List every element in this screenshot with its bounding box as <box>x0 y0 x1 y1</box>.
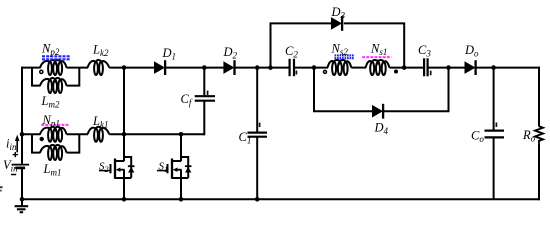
wire S2 source to bottom rail <box>123 170 125 200</box>
minus sign <box>11 174 16 176</box>
wire top row: Do to top-right corner <box>477 67 541 69</box>
svg-text:Ns2: Ns2 <box>331 41 349 57</box>
inductor Lk1 <box>88 127 110 142</box>
wire Lm2 block right side <box>67 68 80 86</box>
wire D4 branch left side down <box>314 68 373 112</box>
diode Do <box>465 60 476 75</box>
highlight dashes Np2 (blue double) <box>42 56 70 59</box>
wire D3 branch right side down <box>344 23 404 67</box>
svg-text:iin: iin <box>6 136 17 152</box>
ground <box>15 199 29 212</box>
svg-text:S2: S2 <box>99 161 109 174</box>
svg-text:Ns1: Ns1 <box>370 41 387 57</box>
svg-text:D4: D4 <box>374 120 389 136</box>
wire top row: D2 to C2 <box>235 67 289 69</box>
svg-text:Cf: Cf <box>181 92 193 108</box>
capacitor Co <box>485 131 505 138</box>
wire left vertical input column <box>21 67 23 164</box>
resistor Ro <box>535 126 543 143</box>
svg-text:C2: C2 <box>285 44 298 60</box>
svg-text:Do: Do <box>464 43 479 59</box>
wire bottom rail <box>22 198 539 200</box>
current arrow iin <box>15 135 20 153</box>
wire C1 branch lower <box>256 137 258 200</box>
svg-text:Np1: Np1 <box>42 113 60 129</box>
wire Cf branch upper <box>203 68 205 97</box>
highlight dashes Np1 (magenta) <box>41 124 69 126</box>
wire D3 branch left and top <box>271 23 332 67</box>
diode D4 <box>372 104 383 119</box>
node Ns1 polarity dot (filled) <box>394 70 398 74</box>
inductor Lm2 <box>40 78 67 93</box>
diode D3 <box>331 16 342 31</box>
highlight dashes Ns1 (magenta) <box>362 56 391 58</box>
wire Lm1 block right side <box>67 134 80 152</box>
wire top row: Lk2 to D1 <box>109 67 154 69</box>
wire S1 source to bottom rail <box>180 170 182 200</box>
wire Co branch lower <box>493 137 495 199</box>
capacitor tick mark Co <box>495 123 497 128</box>
svg-text:S1: S1 <box>159 161 169 174</box>
wire Lm2 block left vertical <box>32 68 41 86</box>
inductor Lm1 <box>40 145 67 160</box>
svg-text:D3: D3 <box>331 5 346 21</box>
wire top row: left vertical to Np2 <box>22 67 41 69</box>
winding Np2 <box>40 60 67 75</box>
node Ns2 polarity dot (open) <box>324 70 327 73</box>
node Np1 polarity dot (filled) <box>40 137 44 141</box>
svg-text:C3: C3 <box>418 43 431 59</box>
wire Cf branch lower <box>203 101 205 136</box>
wire top row: C3 to Do <box>429 67 466 69</box>
wire second row: Np1 to Lk1 <box>67 133 89 135</box>
wire top row: Ns2 to Ns1 <box>351 67 366 69</box>
svg-text:Lm2: Lm2 <box>41 94 60 110</box>
wire second row: Lk1 to Cf bottom corner <box>109 133 204 135</box>
svg-text:Lm1: Lm1 <box>43 162 62 178</box>
transistor S2 <box>99 156 135 179</box>
transistor S1 <box>157 156 192 179</box>
wire battery to bottom rail <box>21 168 23 199</box>
svg-text:Lk1: Lk1 <box>92 114 108 130</box>
svg-text:Ro: Ro <box>522 128 536 144</box>
capacitor C1 <box>248 133 268 137</box>
capacitor C2 <box>290 59 294 76</box>
capacitor C3 <box>424 58 428 76</box>
highlight dashes Ns2 (blue double) <box>335 55 355 58</box>
battery Vin top plate <box>12 164 30 166</box>
svg-text:Np2: Np2 <box>41 41 60 57</box>
svg-text:Co: Co <box>471 128 484 144</box>
svg-text:D2: D2 <box>223 45 238 61</box>
node junction dots <box>20 65 496 201</box>
wire S1 drain vertical <box>180 134 182 161</box>
wire Lm1 block left vertical <box>32 134 41 152</box>
capacitor tick mark C3 <box>430 71 432 76</box>
inductor Lk2 <box>88 60 110 75</box>
winding Ns2 <box>328 60 352 75</box>
winding Ns1 <box>366 60 390 75</box>
diode D2 <box>223 60 234 75</box>
wire top row: Ns1 to C3 <box>390 67 424 69</box>
wire top row: C2 to Ns2 <box>295 67 328 69</box>
wire right vertical upper <box>538 67 540 127</box>
svg-text:D1: D1 <box>162 46 177 62</box>
wire top row: Np2 to Lk2 <box>67 67 89 69</box>
wire top row: D1 to D2 <box>166 67 224 69</box>
wire C1 branch upper <box>256 68 258 133</box>
battery Vin bottom plate <box>15 167 25 170</box>
wire Co branch upper <box>493 68 495 131</box>
svg-text:Lk2: Lk2 <box>92 43 109 59</box>
winding Np1 <box>40 127 67 142</box>
edge artifact bottom-left <box>0 186 3 191</box>
capacitor Cf <box>195 96 215 101</box>
plus sign <box>13 152 18 157</box>
capacitor tick mark C2 <box>295 71 297 75</box>
wire D4 branch right side up <box>384 68 449 112</box>
svg-text:Vin: Vin <box>3 158 18 174</box>
wire right vertical lower <box>538 144 540 201</box>
diode D1 <box>154 60 165 75</box>
node Np2 polarity dot (open) <box>40 70 43 73</box>
wire link vertical top row to second row to S2 drain <box>123 68 125 162</box>
wire second row: left vertical to Np1 <box>22 133 41 135</box>
capacitor tick mark C1 <box>259 123 261 127</box>
capacitor tick mark Cf <box>207 91 209 95</box>
